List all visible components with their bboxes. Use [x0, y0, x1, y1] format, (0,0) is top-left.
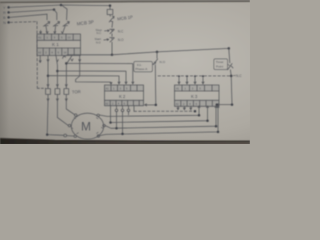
wire K1-14 aux to control line: [63, 55, 112, 59]
node R terminal dot: [7, 6, 10, 8]
svg-text:Stop: Stop: [96, 28, 103, 32]
contactor K3 top cell dividers: [182, 85, 212, 91]
terminal motor LL: [74, 135, 76, 137]
svg-text:N.O: N.O: [160, 60, 166, 64]
terminal motor UR: [97, 114, 99, 116]
node junction: [115, 127, 118, 130]
wire MCB pole2 to K1 terminal 3: [54, 27, 56, 34]
terminal circle K2 wire c: [127, 109, 130, 112]
wire circle to motor LL: [67, 135, 74, 137]
shading K2 terminal rows: [105, 85, 144, 91]
svg-text:N: N: [3, 20, 6, 25]
wire K2 drop to line4: [122, 106, 124, 134]
shading K3 terminal rows: [175, 85, 220, 91]
wire dashed timer line: [158, 75, 231, 77]
wire TOR3 to motor upper-left: [66, 101, 74, 115]
svg-text:K3: K3: [191, 94, 198, 99]
terminal motor UL: [75, 114, 77, 116]
wire K1 A2 stub: [39, 56, 41, 63]
wire to stop button: [111, 22, 114, 28]
wire aux to K2 A2: [145, 67, 156, 106]
node corner dot: [46, 133, 49, 136]
svg-text:N.C: N.C: [118, 29, 124, 33]
wire motor R to K3 via line3: [105, 106, 217, 129]
wire TOR entry arrows: [47, 85, 67, 87]
node Y terminal dot: [7, 11, 10, 14]
svg-text:N.C: N.C: [236, 74, 242, 78]
wire line2 to K3: [111, 106, 209, 123]
wire phase L3 horizontal: [10, 14, 47, 17]
annotation box K1 Phase-A: [134, 61, 153, 71]
node corner bottom: [231, 103, 234, 106]
node dashed meet: [230, 75, 233, 78]
node control junction: [111, 54, 114, 57]
wire neutral dashed vertical: [36, 22, 38, 89]
contactor K1 body: [37, 34, 81, 56]
wire L3 drop to MCB pole 1: [46, 14, 48, 20]
svg-text:Point: Point: [216, 65, 223, 69]
node right corner: [228, 47, 231, 50]
wire right vertical upper: [229, 48, 230, 62]
node dashed end: [194, 110, 197, 113]
svg-text:Phase-A: Phase-A: [135, 67, 148, 71]
wire line A to K2: [66, 63, 134, 84]
breaker MCB3P pole 3: [63, 22, 69, 27]
svg-text:Timer: Timer: [216, 60, 224, 64]
wire K1-6 down to TOR3: [66, 56, 73, 88]
pushbutton STOP NC: [110, 29, 115, 36]
wire K2 short stub: [128, 106, 130, 115]
svg-text:A1: A1: [38, 36, 42, 40]
node K3 A2: [216, 103, 219, 106]
node line1 corner: [198, 114, 201, 117]
svg-text:N.O: N.O: [96, 41, 101, 45]
terminal circle K2 wire a: [115, 109, 118, 112]
breaker MCB1P: [109, 15, 114, 22]
wire right vertical lower: [217, 70, 232, 106]
wire L1 drop to MCB pole 3: [62, 5, 67, 19]
node N terminal dot: [7, 21, 10, 24]
contactor K2 bottom cell dividers: [110, 100, 139, 105]
contactor K2 top cell dividers: [111, 85, 137, 91]
wire K2 drop to line3: [116, 106, 118, 129]
node line2 ends: [109, 121, 112, 124]
wire line B to K2: [57, 71, 127, 84]
motor M circle: [71, 113, 103, 139]
svg-text:Start: Start: [95, 37, 102, 41]
overload TOR2 heater: [55, 88, 60, 101]
terminal circle motor feed: [64, 134, 67, 137]
wire MCB pole1 to K1 terminal 1: [46, 27, 48, 34]
node L2 corner: [53, 8, 56, 11]
wire K2 drop to line2: [110, 106, 112, 123]
wire phase L2 horizontal: [10, 10, 54, 13]
wire line C to K2: [48, 76, 120, 84]
fuse control: [109, 6, 111, 10]
node T-junction line C: [47, 74, 50, 77]
svg-text:N.O: N.O: [118, 38, 124, 42]
wire motor LR to K3 via line4: [100, 106, 219, 136]
annotation box timer: [214, 59, 228, 70]
wire K1-4 down to TOR2: [56, 56, 58, 88]
overload TOR1 heater: [46, 88, 51, 101]
wire motor UR to K3 via line1: [99, 106, 200, 117]
contactor K1 bottom cell dividers: [43, 48, 74, 56]
svg-text:N.C: N.C: [97, 31, 102, 35]
left edge shadow: [0, 0, 9, 144]
node corner: [155, 104, 158, 107]
pushbutton START NO: [110, 38, 115, 55]
node line4 end: [217, 131, 220, 134]
wire K3 bottom spare stubs: [177, 106, 192, 110]
wire K1 right down line D to K2: [76, 56, 112, 85]
wire TOR2 to motor left: [57, 101, 68, 126]
bottom dark band: [0, 139, 250, 145]
top edge shadow line: [0, 0, 250, 1]
wire stub to K1 A1: [40, 31, 42, 34]
node B terminal dot: [7, 16, 10, 19]
wire phase L1 horizontal: [10, 5, 110, 7]
contactor K2 body: [105, 85, 144, 106]
terminal motor LR: [97, 135, 99, 137]
wire neutral dashed into TOR: [37, 87, 45, 89]
contactor K3 bottom cell dividers: [181, 100, 213, 106]
wire TOR1 to motor lower-left: [47, 101, 63, 136]
contact K1 aux NO: [153, 52, 157, 67]
node hold-in tap: [156, 51, 159, 54]
node junction: [121, 133, 124, 136]
paper background: [0, 0, 250, 144]
wire dashed K2 to K3 bottom: [133, 106, 135, 112]
node line3 end: [215, 125, 218, 128]
wire K1-2 down to TOR1: [47, 56, 49, 88]
svg-text:M: M: [81, 120, 91, 134]
wire control line to right: [112, 48, 229, 54]
wire neutral dashed horizontal: [10, 21, 37, 24]
contactor K1 top cell dividers: [44, 34, 73, 40]
terminal motor L: [68, 124, 70, 126]
node dashed taps: [178, 75, 180, 77]
svg-text:K2: K2: [119, 94, 126, 99]
svg-text:TOR: TOR: [72, 89, 81, 94]
wire MCB pole3 to K1 terminal 5: [61, 27, 65, 34]
contactor K3 body: [175, 85, 220, 106]
node T-junction line A: [65, 62, 68, 65]
wire L2 drop to MCB pole 2: [54, 10, 57, 20]
overload TOR3 heater: [64, 88, 69, 101]
svg-text:K1: K1: [52, 42, 60, 47]
node L1 tap: [60, 4, 63, 7]
contact timer NC: [228, 64, 233, 70]
terminal circle K2 wire b: [121, 109, 124, 112]
node T-junction line B: [56, 70, 59, 73]
svg-text:A2: A2: [38, 51, 42, 55]
wire K3 top stubs from dashed: [178, 78, 180, 84]
breaker MCB3P pole 1: [44, 22, 50, 27]
shading K1 terminal rows: [37, 34, 81, 40]
label N.C right: [233, 74, 235, 76]
breaker MCB3P pole 2: [53, 22, 59, 27]
terminal motor R: [103, 124, 105, 126]
